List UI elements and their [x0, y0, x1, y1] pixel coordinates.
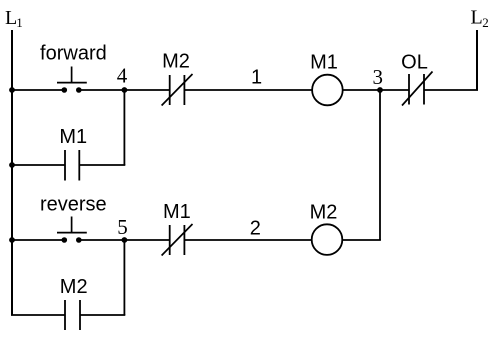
left rail L1 — [11, 30, 13, 315]
contact M1 normally-open (seal-in) — [65, 150, 79, 181]
svg-text:forward: forward — [40, 43, 107, 65]
pushbutton reverse (N.O. momentary) — [57, 217, 87, 243]
right rail L2 — [476, 30, 478, 90]
wire rail to contact M1 seal-in — [11, 164, 65, 166]
svg-text:M2: M2 — [162, 51, 190, 73]
wire seal-in M1 to node 4 branch — [79, 164, 125, 166]
contact M1 normally-closed — [162, 224, 193, 256]
svg-text:M1: M1 — [310, 51, 338, 73]
junction dot rail-rung1 — [9, 87, 15, 93]
wire node 4 down to seal-in branch — [123, 90, 125, 165]
svg-text:4: 4 — [117, 64, 128, 88]
wire rung1 rail to forward button — [11, 89, 64, 91]
svg-text:reverse: reverse — [40, 194, 107, 216]
wire OL to right rail — [424, 89, 478, 91]
svg-text:M2: M2 — [310, 202, 338, 224]
svg-text:OL: OL — [401, 51, 428, 73]
node 5 dot — [122, 237, 128, 243]
junction dot rail-rung2 — [9, 237, 15, 243]
node 3 dot — [377, 87, 383, 93]
pushbutton forward (N.O. momentary) — [57, 67, 87, 93]
wire forward button to contact M2 — [79, 89, 170, 91]
wire reverse button to contact M1 — [79, 239, 170, 241]
wire seal-in M2 to node 5 branch — [80, 314, 125, 316]
wire M1 coil to node 3 — [343, 89, 409, 91]
svg-text:M2: M2 — [60, 276, 88, 298]
contact OL normally-closed — [402, 72, 433, 106]
wire node 5 down to seal-in branch — [123, 240, 125, 315]
wire 2 (M1 contact to M2 coil) — [184, 239, 311, 241]
wire rung2 rail to reverse button — [11, 239, 64, 241]
contact M2 normally-open (seal-in) — [65, 300, 80, 330]
svg-text:M1: M1 — [163, 201, 191, 223]
svg-text:2: 2 — [250, 217, 261, 239]
node 4 dot — [122, 87, 128, 93]
svg-text:1: 1 — [251, 66, 262, 88]
wire M2 coil to node 3 riser — [342, 239, 381, 241]
svg-text:5: 5 — [117, 215, 128, 239]
svg-text:M1: M1 — [59, 126, 87, 148]
wire riser rung2 up to node 3 — [379, 90, 381, 240]
svg-text:3: 3 — [373, 65, 384, 89]
coil M2 — [312, 224, 343, 255]
junction dot rail-seal1 — [9, 162, 15, 168]
contact M2 normally-closed — [162, 74, 193, 106]
coil M1 — [312, 75, 343, 106]
wire 1 (M2 contact to M1 coil) — [184, 89, 312, 91]
wire rail corner to contact M2 seal-in — [11, 314, 65, 316]
